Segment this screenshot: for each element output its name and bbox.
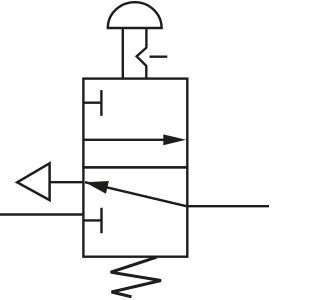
- plugged port T (bottom box): [83, 208, 101, 234]
- flow path diagonal (bottom box): [85, 182, 186, 206]
- left port wire: [0, 213, 83, 215]
- return spring: [111, 257, 161, 297]
- exhaust triangle: [17, 163, 49, 200]
- wire exhaust triangle to body: [50, 181, 84, 183]
- detent latch dash: [150, 56, 168, 58]
- plugged port T (top box): [83, 90, 101, 116]
- flow path arrow (top box): [83, 139, 167, 141]
- right port wire: [187, 205, 269, 207]
- mushroom button head: [108, 2, 162, 28]
- actuator stem right wire with detent notch: [137, 28, 147, 79]
- valve body position box 1 (top): [83, 79, 187, 168]
- actuator stem left wire: [122, 28, 124, 79]
- diagonal arrowhead: [85, 181, 109, 194]
- valve body position box 2 (bottom): [83, 167, 187, 256]
